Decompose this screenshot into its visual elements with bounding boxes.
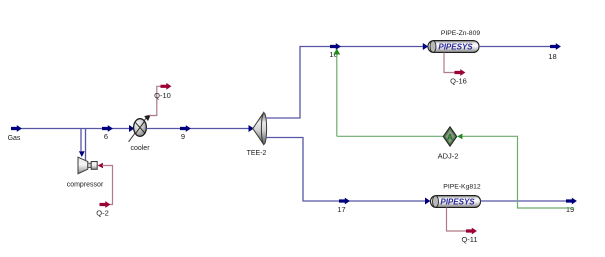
stream 17 arrow marker — [339, 198, 350, 205]
energy wire Q-16 — [444, 53, 456, 73]
wire PIPE-Kg812 to stream 19 — [481, 200, 568, 202]
svg-text:PIPESYS: PIPESYS — [440, 198, 475, 207]
svg-text:cooler: cooler — [130, 145, 150, 152]
energy wire Q-11 — [447, 208, 468, 232]
svg-text:PIPESYS: PIPESYS — [438, 43, 473, 52]
TEE-2 splitter — [253, 113, 267, 145]
stream 6 arrow marker — [102, 125, 113, 132]
wire PIPE-Zn-809 to stream 18 — [479, 46, 552, 48]
wire cooler to TEE-2 — [147, 125, 254, 132]
energy stream Q-11 arrow marker — [466, 228, 477, 235]
energy stream Q-16 arrow marker — [455, 69, 466, 76]
adjust block ADJ-2 — [443, 127, 456, 146]
svg-text:Q-10: Q-10 — [154, 91, 171, 100]
pipe PIPE-Kg812 PIPESYS unit — [431, 196, 481, 208]
svg-text:A: A — [447, 132, 453, 142]
energy wire Q-2 to compressor — [98, 163, 113, 205]
energy stream Q-2 arrow marker — [100, 201, 111, 208]
svg-text:Q-2: Q-2 — [96, 209, 109, 218]
wire TEE-2 top outlet to PIPE-Zn-809 — [266, 43, 429, 118]
pipe PIPE-Zn-809 PIPESYS unit — [428, 41, 479, 53]
svg-text:ADJ-2: ADJ-2 — [438, 152, 459, 161]
svg-text:19: 19 — [566, 205, 574, 214]
adjust wire ADJ-2 horizontal left segment — [337, 135, 444, 137]
svg-text:compressor: compressor — [67, 182, 104, 189]
compressor K-100 — [78, 157, 97, 174]
wire Gas feed to compressor inlet — [13, 129, 130, 158]
adjust wire ADJ-2 to stream 16 — [333, 49, 340, 137]
svg-text:Q-16: Q-16 — [450, 77, 467, 86]
cooler E-100 — [129, 115, 151, 142]
stream Gas arrow marker — [11, 125, 22, 132]
wire compressor outlet to cooler — [86, 125, 135, 160]
energy stream Q-10 arrow marker — [161, 83, 172, 90]
svg-text:TEE-2: TEE-2 — [247, 150, 267, 157]
stream 18 arrow marker — [550, 43, 561, 50]
svg-text:PIPE-Kg812: PIPE-Kg812 — [443, 184, 481, 191]
adjust wire ADJ-2 to stream 19 — [457, 134, 574, 209]
svg-text:9: 9 — [181, 132, 185, 141]
svg-text:Q-11: Q-11 — [461, 235, 477, 244]
svg-text:PIPE-Zn-809: PIPE-Zn-809 — [441, 30, 481, 37]
energy wire Q-10 to cooler — [149, 86, 162, 115]
stream 16 arrow marker — [330, 43, 341, 50]
svg-text:6: 6 — [104, 132, 108, 141]
svg-text:Gas: Gas — [8, 135, 21, 142]
stream 19 arrow marker — [566, 198, 577, 205]
svg-text:18: 18 — [548, 52, 556, 61]
stream 9 arrow marker — [180, 125, 191, 132]
svg-text:17: 17 — [337, 205, 345, 214]
wire TEE-2 bottom outlet to PIPE-Kg812 — [266, 138, 431, 205]
